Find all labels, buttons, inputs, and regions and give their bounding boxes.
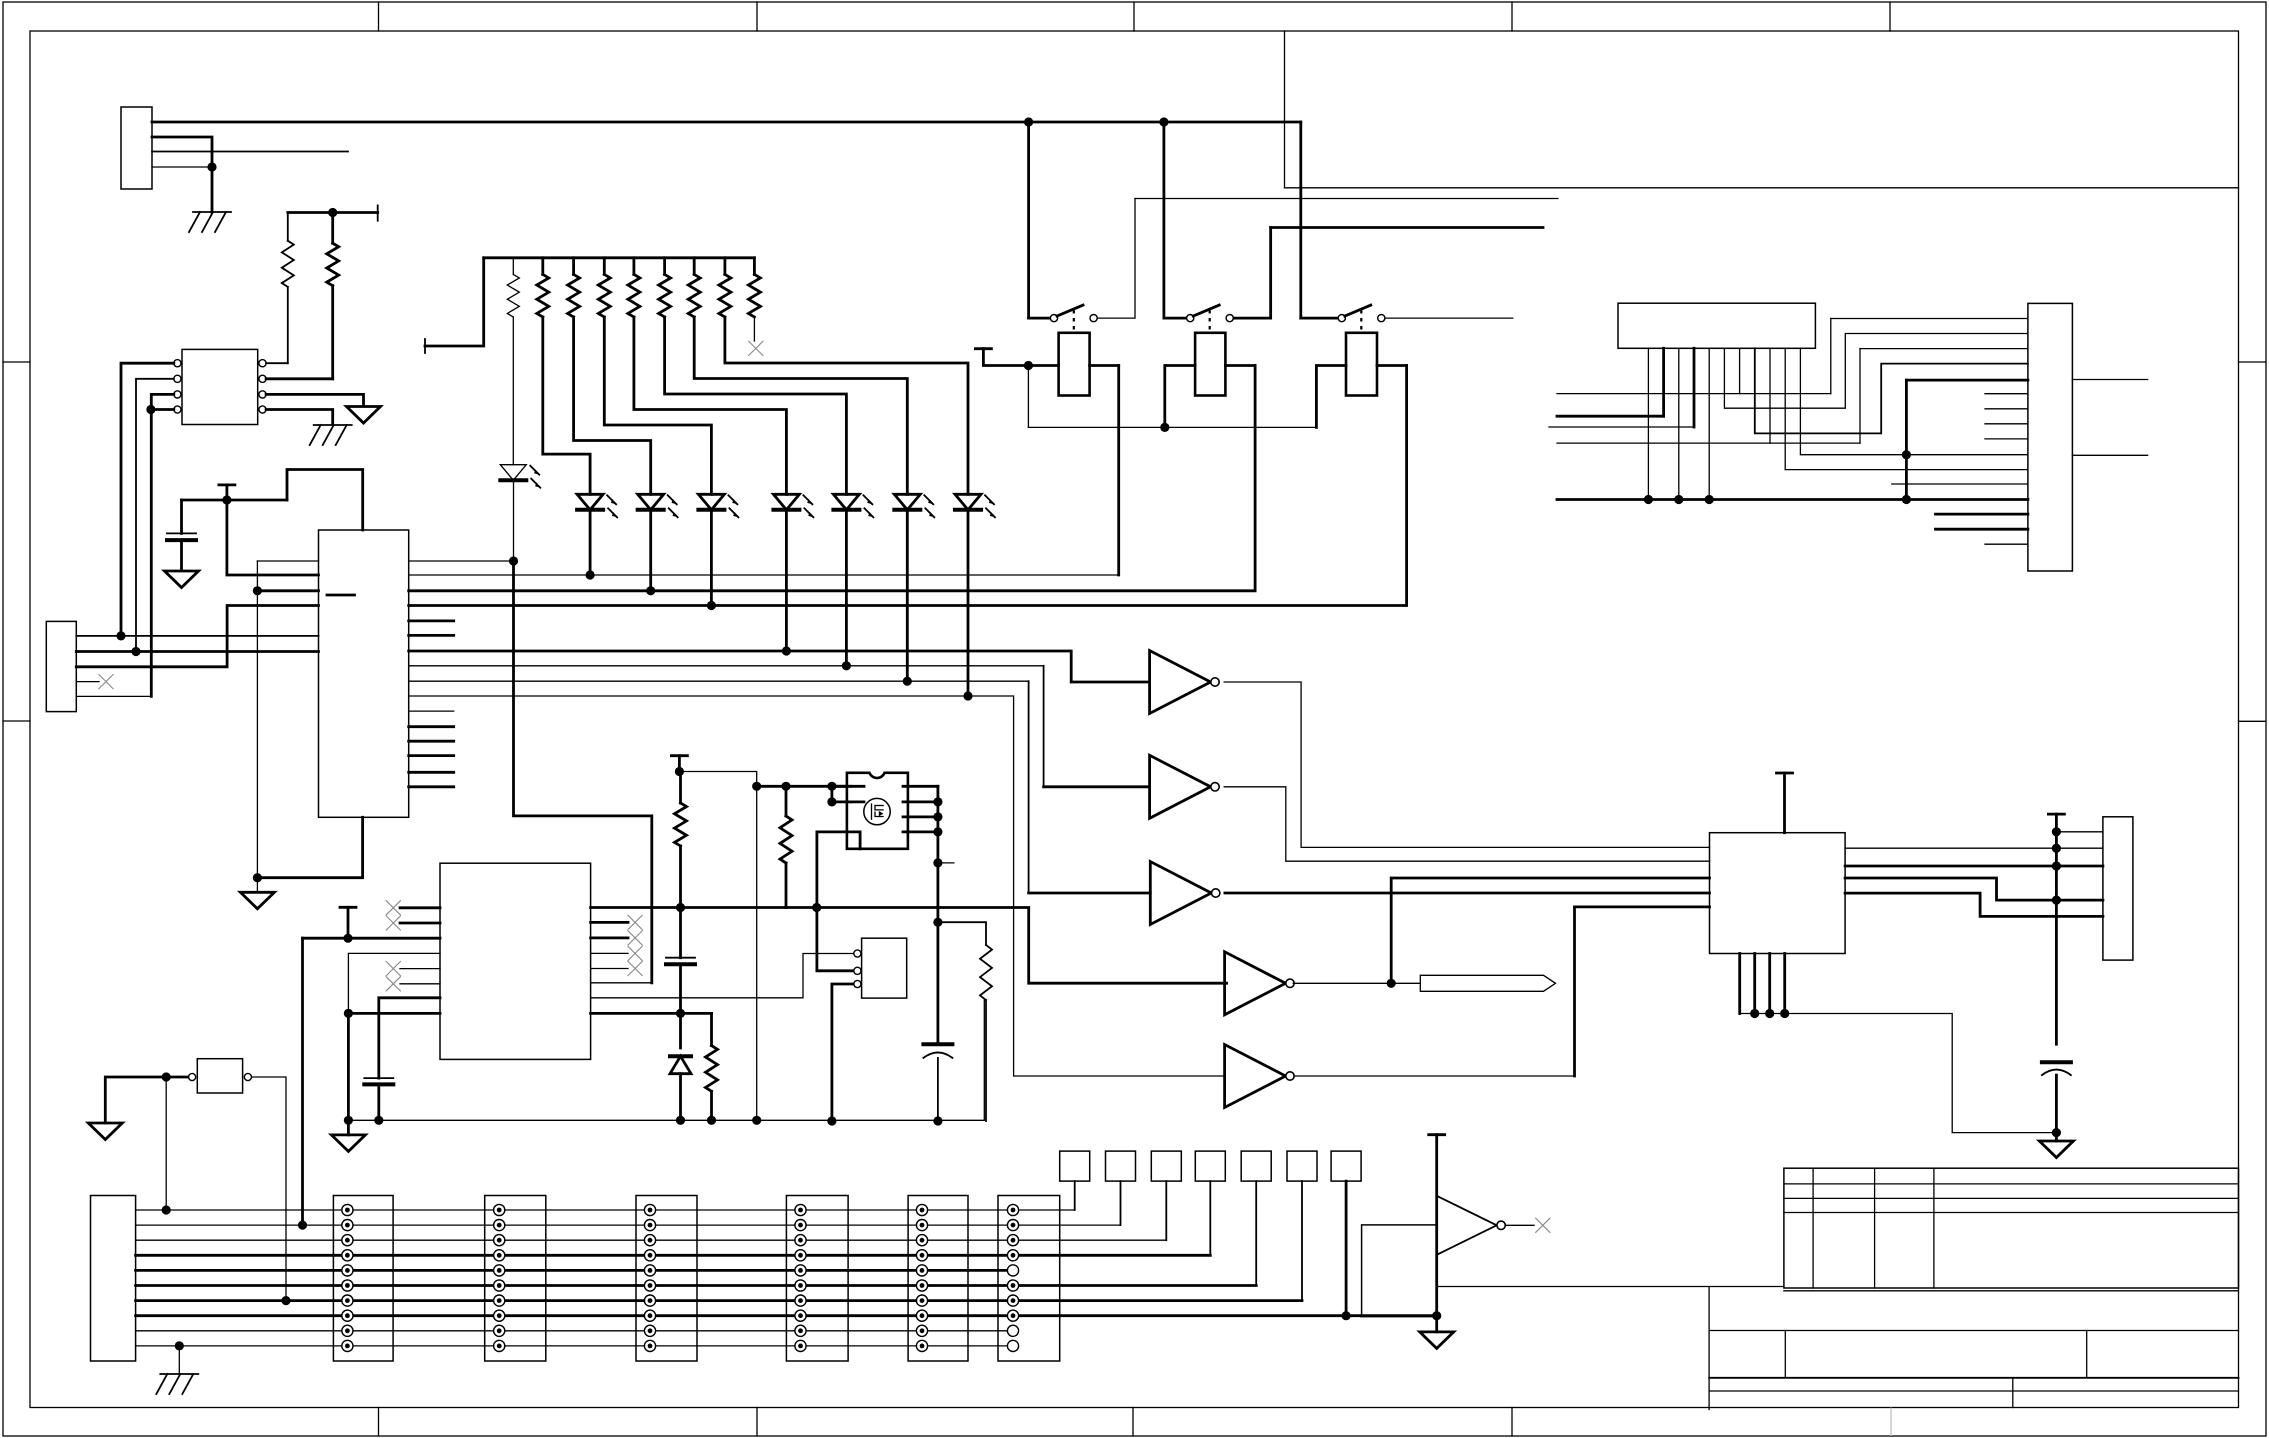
TB5 pin row9: [916, 1325, 927, 1336]
wire J1 pin2 to ground stem: [152, 137, 212, 212]
J6 stub pin y=514.1 (thick): [1936, 513, 2028, 516]
relay K3 feed from rail122 corner: [1301, 317, 1338, 320]
buffer U5A: [1150, 651, 1211, 714]
U2 right stub y=968.5 with X: [591, 968, 628, 970]
TB3 pin row3: [644, 1235, 655, 1246]
wire row9 (y=1330.8): [136, 1330, 1007, 1332]
buffer U5D: [1225, 952, 1286, 1015]
junction U6 pin4 / x151 vertical: [146, 405, 155, 414]
U1 right stub pin y=741.2: [409, 740, 454, 743]
U2 left stub pin y=907.8 with X: [400, 906, 440, 909]
TB4 pin row10: [795, 1340, 806, 1351]
junction LED7 column: [903, 677, 912, 686]
resistor RA3 (x=573.6): [572, 258, 575, 275]
wire J4 pin7 to J6 pin2: [1724, 334, 2028, 409]
wire C1 top / T1 / U1 feed at y=500: [182, 499, 288, 502]
wire from top border x=1284 down to long net y=187.8: [1284, 31, 1286, 188]
wire row4 (y=1255.3): [136, 1254, 1211, 1257]
terminal T3 above U2 pin y=938.2: [340, 906, 356, 909]
U1 right stub pin y=786.8: [409, 785, 454, 788]
switch K3 contacts: [1338, 315, 1345, 322]
junction drain stub: [933, 858, 942, 867]
wire net LED6 (U1 y=665.8) to buffer2 input: [409, 665, 1044, 667]
wire U3 pin3 down to rail: [832, 984, 853, 1121]
TB4 pin row5: [795, 1265, 806, 1276]
wire U2 left pin y=997.8 to cap column: [379, 998, 440, 1078]
wire RA2 staircase to LED2: [543, 317, 590, 494]
wire U2 pin y=938.2 net to bottom row2: [303, 937, 441, 940]
wire R5 bottom to gate net: [785, 863, 788, 908]
wire T2 to K1 coil left: [983, 349, 1058, 366]
TB4 pin row6: [795, 1280, 806, 1291]
wire RA3 staircase to LED3: [574, 317, 651, 494]
junction pin1013 / zener column: [676, 1009, 685, 1018]
wire net LED5 (U1 y=651) to buffer1 input: [409, 651, 1150, 682]
TB2 pin row5: [494, 1265, 505, 1276]
junction J2pin2 / x136 vertical: [131, 647, 140, 656]
K3 actuator dotted link: [1360, 310, 1362, 331]
TB1 pin row4: [342, 1250, 353, 1261]
comparator U7 triangle: [1437, 1196, 1497, 1255]
wire LED2 to bus: [589, 511, 592, 575]
wire row2 (y=1225.1): [136, 1224, 1121, 1226]
wire K2 coil left down to sense bus: [1165, 366, 1195, 428]
junction gate-top / Q1 pin tie: [827, 782, 836, 791]
wire U2 left pin y=953.4 to gnd column: [348, 953, 440, 1013]
wire feedback vertical to U4 pin3: [1391, 878, 1709, 983]
resistor R4 (x=680.5 upper): [679, 772, 682, 804]
rail y=499.5 into J6 pin13: [1557, 498, 2028, 501]
TB1 pin row6: [342, 1280, 353, 1291]
jumper box JP6: [1287, 1151, 1317, 1181]
wire x=816.7 tie from Q1 pins to U3 pin2: [817, 832, 858, 971]
power-arrow ground GND5 at x=257: [256, 878, 258, 893]
resistor RA8 (x=724.9): [724, 258, 727, 275]
wire J1 pin1 power rail y=122 to relay area: [152, 121, 1301, 124]
U2 left stub pin y=968.6 with X: [400, 968, 440, 970]
wire T7 to U4 top pin: [1783, 773, 1786, 833]
junction R3 / rail: [707, 1116, 716, 1125]
junction LED4 column: [707, 601, 716, 610]
junction zener / rail: [676, 1116, 685, 1125]
junction drain bus 816.9: [933, 812, 942, 821]
buffer U5E: [1225, 1045, 1286, 1108]
wire LED5 to bus: [785, 511, 788, 651]
TB1 pin row5: [342, 1265, 353, 1276]
junction T1 stem / y500 wire: [222, 495, 231, 504]
wire RA4 staircase to LED4: [604, 317, 711, 494]
junction Q1 pin tie bottom: [827, 797, 836, 806]
TB2 pin row9: [494, 1325, 505, 1336]
connector J6 (right vertical): [2028, 303, 2072, 571]
U6 right pin bubble y=363.2: [259, 360, 266, 367]
junction gate net / RC column: [676, 903, 685, 912]
wire T5 ground stem: [1435, 1316, 1438, 1332]
wire drain sense to R6 top: [938, 922, 986, 945]
terminal block TB2: [485, 1196, 546, 1362]
zener diode D9 (x=680.5): [670, 1054, 691, 1058]
title block table2: [1708, 1288, 1710, 1410]
wire net LED8 (U1 y=696) to buffer5 input: [409, 696, 1225, 1076]
junction LED6 column: [842, 661, 851, 670]
FL1 left bubble: [189, 1073, 196, 1080]
wire row8 (y=1315.7): [136, 1314, 1437, 1317]
TB3 pin row2: [644, 1220, 655, 1231]
TB5 pin row10: [916, 1340, 927, 1351]
U3 pin2 bubble: [854, 967, 861, 974]
LED D1: [500, 465, 526, 481]
wire K3 coil right to LED4 bus: [1377, 364, 1407, 367]
TB6 open pin row5: [1007, 1265, 1018, 1276]
U2 left stub pin y=923 with X: [400, 922, 440, 925]
wire bundle stub y=393.6 to J6 pin1 riser: [1557, 393, 1831, 395]
Q1 pin tie vertical x=831.9: [831, 786, 834, 802]
resistor R1 (x=288): [287, 213, 289, 241]
junction drain bus 831.9: [933, 827, 942, 836]
junction row8 / box7 stem: [1342, 1311, 1351, 1320]
capacitor C4 (x=937.9, polarized): [923, 1042, 952, 1046]
TB6 pin row3: [1007, 1235, 1018, 1246]
junction J1 pin4/gnd stem: [207, 162, 216, 171]
no-connect X at U7 output: [1535, 1218, 1550, 1233]
LED D6: [833, 494, 859, 510]
FL1 right bubble: [244, 1073, 251, 1080]
wire gate-top net y=786.3: [757, 785, 847, 788]
junction x1906/rail: [1902, 495, 1911, 504]
no-connect X at RA9: [748, 341, 763, 356]
IC U6 (8-pin opto, top left): [182, 349, 258, 424]
title block table1 bottom double line: [1784, 1290, 2239, 1292]
IC U2 (middle controller): [440, 863, 591, 1059]
wire down to rail at x=711.5: [710, 1013, 713, 1045]
net label flag (output tag): [1420, 975, 1555, 991]
power-arrow ground GND6 below rail: [347, 1120, 350, 1135]
LED D7: [894, 494, 920, 510]
U6 right pin bubble y=409.5: [259, 406, 266, 413]
junction row10 / ground stem: [175, 1341, 184, 1350]
junction y866 / T6 vertical: [2052, 861, 2061, 870]
wire K2 coil right to LED3 bus: [1225, 364, 1255, 367]
wire U6 pin8 from R1: [266, 362, 288, 364]
buffer U5B: [1150, 755, 1211, 818]
junction drain / sense y=922.2: [933, 918, 942, 927]
wire net LED3 (U1 y=590.8) to relay2 coil: [409, 366, 1255, 591]
wire LED4 to bus: [710, 511, 713, 606]
wire JP5 stem: [1255, 1181, 1257, 1285]
wire row3 (y=1240.2): [136, 1239, 1167, 1241]
connector J4 (top horizontal): [1618, 303, 1815, 348]
TB3 pin row7: [644, 1295, 655, 1306]
wire K3 coil left down to sense bus end: [1316, 366, 1346, 428]
TB5 pin row3: [916, 1235, 927, 1246]
TB6 pin row6: [1007, 1280, 1018, 1291]
junction gate-top / R5 top: [781, 782, 790, 791]
TB4 pin row8: [795, 1310, 806, 1321]
wire J4 pin4 to rail y=499.5: [1678, 348, 1680, 499]
junction row7 / FL1-right column: [281, 1296, 290, 1305]
TB3 pin row8: [644, 1310, 655, 1321]
wire stub net y=198.5 (from relay1 output riser): [1135, 198, 1558, 200]
U1 right stub pin y=711.1: [409, 710, 454, 712]
wire relay1 coil-right vertical: [1117, 366, 1120, 576]
wire y500 up-over to U1 top pin: [287, 470, 363, 531]
wire R2 bottom to U6 pin7: [331, 286, 334, 379]
U3 pin1 bubble: [854, 950, 861, 957]
junction LED5 column: [782, 646, 791, 655]
junction row8 / T5 vertical: [1432, 1311, 1441, 1320]
relay K2 feed from rail122: [1163, 122, 1166, 318]
wire JP1 stem: [1074, 1181, 1076, 1210]
junction T6 / pin 831.8: [2052, 827, 2061, 836]
TB2 pin row8: [494, 1310, 505, 1321]
TB3 pin row1: [644, 1204, 655, 1215]
TB1 pin row8: [342, 1310, 353, 1321]
wire U2 right pin y=907.5 gate drive net: [591, 906, 786, 909]
wire JP4 stem: [1209, 1181, 1211, 1255]
ground rail y=1120.3 (middle): [347, 1000, 984, 1120]
wire y=771.5 to x=756.7 column: [679, 772, 756, 787]
J6 stub pin y=529.2 (thick): [1936, 528, 2028, 531]
resistor R3 (x=711.5): [706, 1046, 718, 1092]
wire U6 pin7 from R2: [266, 377, 333, 380]
junction C2 / gnd rail: [374, 1116, 383, 1125]
U6 left pin bubble y=378.8: [174, 375, 181, 382]
LED D5: [773, 494, 799, 510]
TB4 pin row2: [795, 1220, 806, 1231]
border tick top x=1134: [1133, 2, 1135, 31]
junction rail122/relay1 feed: [1024, 117, 1033, 126]
border tick top x=757: [756, 2, 758, 31]
wire U6 pin3 to vertical x=151: [151, 394, 174, 696]
Q1 internal circle: [864, 798, 890, 824]
junction x257 / U1 pin y=590.8: [253, 586, 262, 595]
resistor R6 (x=986): [980, 945, 992, 1000]
junction x1906/p12 line: [1902, 450, 1911, 459]
connector J2 (5-pin, left edge): [46, 621, 76, 711]
border tick left y=721: [3, 720, 30, 722]
wire row10 (y=1345.9): [136, 1345, 1007, 1347]
wire J1 pin4 to ground junction: [152, 166, 212, 168]
terminal T7 above U4 top pin: [1777, 772, 1793, 775]
U8 bottom edge emphasis: [1362, 1315, 1437, 1318]
TB3 pin row9: [644, 1325, 655, 1336]
junction rail122/relay2 feed: [1159, 117, 1168, 126]
junction K1 coil-left / sense vertical: [1024, 361, 1033, 370]
U1 right stub pin y=755.6: [409, 754, 454, 757]
box U8 (bottom module): [1362, 1225, 1437, 1316]
junction LED8 column: [963, 691, 972, 700]
junction p6/rail: [1705, 495, 1714, 504]
Q1 left pin 1: [832, 785, 851, 788]
wire x=166 down to row1: [165, 1077, 167, 1210]
wire U5E net to U4 pin5: [1575, 906, 1710, 909]
U1 right stub pin y=726.7: [409, 725, 454, 728]
U1 pin-1 mark (internal dash): [327, 594, 355, 597]
junction x756 / rail: [752, 1116, 761, 1125]
wire U5A output to U4 pin1: [1224, 682, 1709, 847]
junction y848 / T6 vertical: [2052, 844, 2061, 853]
wire U6 pin1 to vertical x=121: [121, 363, 174, 636]
U6 left pin bubble y=363.2: [174, 360, 181, 367]
TB2 pin row1: [494, 1204, 505, 1215]
TB1 pin row1: [342, 1204, 353, 1215]
U6 left pin bubble y=409.5: [174, 406, 181, 413]
junction U4 bottom pin4: [1780, 1009, 1789, 1018]
capacitor C2 (x=378.8): [364, 1077, 393, 1079]
border tick right y=362: [2239, 361, 2267, 363]
wire U2 right pin y=982.8 from LED1 net: [591, 982, 652, 984]
TB4 pin row4: [795, 1250, 806, 1261]
junction U4 bottom pin2: [1750, 1009, 1759, 1018]
junction U4 bottom pin3: [1765, 1009, 1774, 1018]
border tick top x=1512: [1511, 2, 1513, 31]
terminal T6 above right connector: [2048, 813, 2064, 816]
wire J2 pin1 to U1 (net A): [76, 635, 318, 637]
Q1 right pin 4: [903, 831, 938, 834]
LED D4: [698, 494, 724, 510]
wire relay sense bus y=427.4: [1028, 426, 1316, 428]
border tick left y=362: [3, 361, 30, 363]
terminal tick right end of rail212: [377, 205, 379, 220]
terminal block TB4: [786, 1196, 848, 1362]
wire gate net to buffer4 feed: [786, 908, 1227, 984]
capacitor C5 (x=2056.4, polarized): [2042, 1060, 2071, 1064]
TB1 pin row7: [342, 1295, 353, 1306]
wire U4 bottom common to cap-gnd node: [1740, 1014, 2057, 1133]
wire J4 pin6 to rail y=499.5: [1708, 348, 1710, 499]
U1 right stub pin y=772.3: [409, 771, 454, 774]
wire terminal to resistor rail: [425, 258, 484, 346]
wire J2 pin4 stub with no-connect: [76, 681, 99, 683]
wire J4 pin11 to J6 pin11: [1785, 348, 2028, 469]
junction p4/rail: [1674, 495, 1683, 504]
wire row6 (y=1285.5): [136, 1284, 1257, 1287]
junction FL1-left / row1 column: [162, 1072, 171, 1081]
J6 stub pin y=544.2: [1985, 543, 2028, 545]
junction gate net / x=816.7 vertical: [812, 903, 821, 912]
wire FL1 left to gnd arrow: [105, 1077, 188, 1123]
transistor Q1 package outline: [847, 773, 908, 849]
U2 right stub y=922.4 with X: [591, 921, 628, 924]
wire J4 pin9 to J6 pin4 (thick): [1755, 348, 2028, 433]
junction LED3 column: [646, 586, 655, 595]
power-arrow ground GND7: [88, 1123, 122, 1140]
U6 right pin bubble y=378.8: [259, 375, 266, 382]
Q1 inner stubs left: [851, 786, 864, 802]
wire U6 pin4 taps vertical x=151: [151, 408, 174, 411]
wire riser x=1860 to J6 pin3: [1859, 349, 1861, 444]
resistor array top rail y=257.8: [484, 256, 755, 259]
Q1 right pin 2: [903, 801, 938, 804]
wire net LED1 (U1 y=561): [409, 560, 514, 562]
wire K3 output stub: [1386, 317, 1513, 319]
J6 stub pin y=438.9: [1985, 438, 2028, 440]
TB5 pin row5: [916, 1265, 927, 1276]
border tick bottom x=1135: [1132, 1408, 1134, 1437]
wire J4 pin8 drop tees into y=393.6: [1739, 348, 1741, 393]
switch K2 contacts: [1187, 315, 1194, 322]
jumper box JP7: [1331, 1151, 1361, 1181]
wire U5D output to net label: [1293, 982, 1420, 984]
power-arrow ground GND4 below C1: [165, 571, 199, 588]
TB6 pin row8: [1007, 1310, 1018, 1321]
drain bus vertical x=937.9: [937, 786, 940, 1044]
border tick bottom x=1891 (faint): [1890, 1408, 1892, 1437]
junction row1 / FL1 column: [162, 1205, 171, 1214]
resistor RA1 (x=513.3): [512, 258, 514, 275]
TB2 pin row3: [494, 1235, 505, 1246]
junction y900 / T6 vertical: [2052, 896, 2061, 905]
TB5 pin row4: [916, 1250, 927, 1261]
connector J5 (right bottom): [2103, 817, 2133, 960]
TB5 pin row2: [916, 1220, 927, 1231]
border tick right y=721: [2239, 720, 2267, 722]
terminal T4 (x=679): [671, 754, 687, 757]
wire U5E output riser: [1573, 907, 1576, 1076]
TB4 pin row9: [795, 1325, 806, 1336]
wire LED8 to bus: [967, 511, 970, 696]
wire J4 pin3 drop: [1662, 348, 1665, 416]
IC U4 (right interface): [1710, 833, 1846, 954]
wire LED7 to bus: [906, 511, 909, 682]
wire R4 to C3: [679, 846, 682, 958]
TB5 pin row1: [916, 1204, 927, 1215]
U1 right stub pin y=635.4: [409, 634, 454, 637]
TB6 pin row1: [1007, 1204, 1018, 1215]
U1 right stub pin y=620.9: [409, 620, 454, 623]
IC U3 (3-pin supervisor): [862, 938, 907, 998]
junction LED2 column: [586, 570, 595, 579]
wire row10 ground stem: [178, 1346, 180, 1374]
TB5 pin row6: [916, 1280, 927, 1291]
J6 right stub y=379.5: [2072, 379, 2147, 381]
wire U5B output to U4 pin2: [1224, 787, 1709, 861]
junction T4 / y=771.5: [675, 767, 684, 776]
U2 left stub pin y=983.8 with X: [400, 983, 440, 985]
TB1 pin row10: [342, 1340, 353, 1351]
wire gnd column x=348 to rail: [347, 1013, 350, 1120]
U6 left pin bubble y=394.4: [174, 391, 181, 398]
wire R1 bottom to U6 pin8: [287, 287, 289, 363]
wire J4 pin12 to J6 pin10: [1800, 348, 2028, 454]
TB2 pin row10: [494, 1340, 505, 1351]
wire LED6 to bus: [845, 511, 848, 666]
wire U1 left pin y=590.8: [257, 589, 318, 592]
wire U5C output to U4 pin4: [1225, 892, 1710, 895]
terminal T2 left of K1 coil: [975, 347, 991, 350]
wire U7 output stub: [1505, 1224, 1534, 1226]
LED D8: [955, 494, 981, 510]
wire U6 pin2 to vertical x=136: [136, 379, 174, 652]
wire rail122 corner down to relay3: [1299, 122, 1302, 318]
resistor RA7 (x=694.2): [693, 258, 696, 275]
relay K2 coil: [1195, 333, 1225, 396]
IC U1 (tall, main driver): [319, 530, 409, 817]
capacitor C3 (x=680.5): [666, 957, 695, 959]
junction x257 / U1 bottom wire: [253, 873, 262, 882]
U2 right stub y=937.9 with X: [591, 937, 628, 940]
J6 stub pin y=484: [1892, 483, 2028, 485]
LED D3: [638, 494, 664, 510]
wire row5 (y=1270.4): [136, 1269, 1007, 1272]
wire RA1 to LED1: [512, 317, 514, 465]
J6 right stub y=455.3: [2072, 454, 2147, 456]
wire net LED4 (U1 y=605.5) to relay3 coil: [409, 366, 1407, 606]
jumper box JP4: [1195, 1151, 1225, 1181]
wire JP2 stem: [1120, 1181, 1122, 1225]
Q1 MOSFET glyph: [872, 804, 884, 819]
jumper box JP2: [1106, 1151, 1136, 1181]
